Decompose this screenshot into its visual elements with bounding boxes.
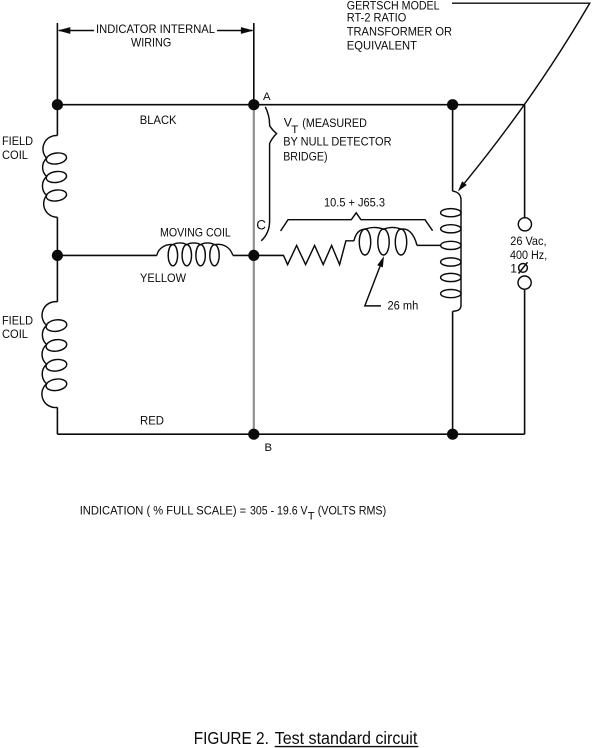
svg-text:1: 1: [510, 262, 517, 276]
node: top-left junction: [52, 99, 63, 110]
svg-text:26 Vac,: 26 Vac,: [510, 234, 546, 248]
node C: [248, 250, 259, 261]
label: FIELD COIL (lower): [2, 313, 33, 341]
caption: FIGURE 2. Test standard circuit: [194, 728, 419, 748]
dimension arrow line (left segment with arrowhead): [58, 27, 94, 34]
svg-text:(VOLTS RMS): (VOLTS RMS): [318, 504, 387, 518]
svg-text:TRANSFORMER OR: TRANSFORMER OR: [347, 24, 452, 38]
arrow: 26 mh pointer: [365, 256, 384, 306]
inductor: moving coil: [157, 243, 233, 266]
svg-text:EQUIVALENT: EQUIVALENT: [347, 38, 418, 52]
wire: A-B vertical bus (gray): [253, 105, 255, 435]
label: INDICATOR INTERNAL WIRING: [96, 22, 215, 49]
svg-text:COIL: COIL: [2, 327, 28, 341]
svg-text:YELLOW: YELLOW: [140, 271, 187, 285]
node: junction at transformer top: [447, 99, 458, 110]
transformer: ratio transformer winding: [441, 191, 461, 311]
wire: left vertical upper: [56, 105, 58, 136]
svg-text:305 - 19.6 V: 305 - 19.6 V: [250, 504, 308, 518]
label: 26 Vac, 400 Hz, 1 phase: [510, 234, 547, 275]
dimension arrow line (right segment with arrowhead): [217, 27, 254, 34]
svg-text:B: B: [265, 442, 273, 454]
node A: [248, 99, 259, 110]
svg-text:Test standard circuit: Test standard circuit: [275, 728, 418, 748]
svg-text:10.5 + J65.3: 10.5 + J65.3: [324, 196, 385, 210]
svg-text:WIRING: WIRING: [131, 36, 171, 50]
inductor: field coil 1: [42, 135, 67, 217]
svg-text:RT-2 RATIO: RT-2 RATIO: [347, 11, 407, 25]
svg-text:FIELD: FIELD: [2, 313, 33, 327]
svg-text:FIELD: FIELD: [2, 134, 33, 148]
svg-text:BY NULL DETECTOR: BY NULL DETECTOR: [283, 134, 392, 148]
wire: tap to transformer: [417, 244, 441, 246]
wire: transformer bottom lead: [452, 311, 454, 434]
svg-text:BLACK: BLACK: [140, 113, 177, 127]
svg-text:A: A: [263, 91, 271, 103]
svg-text:C: C: [256, 218, 266, 233]
inductor: field coil 2: [42, 302, 68, 408]
wire: left dimension stub: [56, 23, 58, 105]
svg-text:BRIDGE): BRIDGE): [283, 149, 327, 163]
label: VT (MEASURED BY NULL DETECTOR BRIDGE): [283, 116, 392, 164]
node: transformer bottom junction: [447, 429, 458, 440]
svg-text:400 Hz,: 400 Hz,: [510, 248, 547, 262]
wire: right dimension stub: [253, 23, 255, 105]
svg-text:MOVING COIL: MOVING COIL: [160, 226, 231, 240]
terminal: 26 Vac top: [518, 218, 531, 231]
svg-text:FIGURE 2.: FIGURE 2.: [194, 728, 269, 748]
wire: right branch upper: [524, 105, 526, 218]
wire: left vertical lower: [56, 407, 58, 434]
terminal: 26 Vac bottom: [518, 276, 531, 289]
svg-text:INDICATION ( % FULL SCALE) =: INDICATION ( % FULL SCALE) =: [80, 504, 247, 518]
wire: right branch lower: [524, 289, 526, 434]
svg-text:INDICATOR INTERNAL: INDICATOR INTERNAL: [96, 22, 215, 36]
svg-text:T: T: [308, 511, 315, 523]
svg-text:RED: RED: [140, 413, 164, 427]
svg-text:26 mh: 26 mh: [388, 299, 419, 313]
label: INDICATION formula: [80, 504, 387, 523]
svg-text:COIL: COIL: [2, 148, 28, 162]
wire: node C to resistor: [254, 254, 284, 256]
inductor: 26 mh coil: [354, 227, 417, 255]
label: FIELD COIL (upper): [2, 134, 33, 162]
wire: top rail: [57, 104, 524, 106]
brace: 10.5 + J65.3: [281, 213, 433, 231]
resistor: 10.5 ohm zigzag: [284, 241, 355, 265]
svg-text:(MEASURED: (MEASURED: [302, 116, 367, 130]
wire: left vertical middle: [56, 217, 58, 302]
wire: middle rail left (yellow lead): [57, 254, 156, 256]
wire: moving coil to node C: [233, 254, 254, 256]
wire: transformer top lead: [452, 105, 454, 192]
node B: [248, 429, 259, 440]
label: GERTSCH MODEL RT-2 RATIO TRANSFORMER OR EQUIVALENT: [347, 0, 452, 52]
node: middle-left junction: [52, 250, 63, 261]
brace: VT measurement (A to C): [261, 107, 276, 241]
wire: bottom rail: [57, 433, 524, 435]
leader line from GERTSCH label to transformer (with arrowhead): [452, 3, 590, 191]
